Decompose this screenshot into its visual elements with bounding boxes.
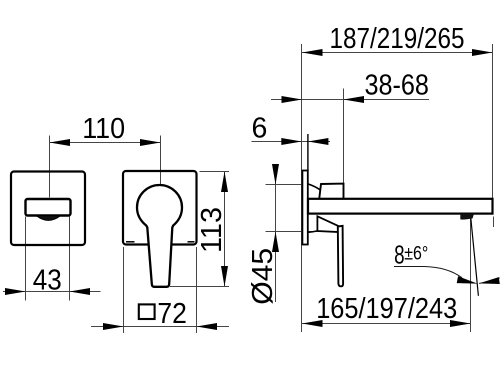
svg-text:187/219/265: 187/219/265 (330, 23, 465, 55)
svg-text:8: 8 (394, 241, 405, 269)
svg-text:38-68: 38-68 (364, 69, 429, 101)
svg-text:113: 113 (196, 207, 228, 253)
svg-text:72: 72 (157, 298, 187, 330)
svg-text:±6°: ±6° (404, 243, 428, 265)
svg-text:43: 43 (33, 264, 62, 296)
svg-text:Ø45: Ø45 (247, 248, 279, 305)
svg-text:6: 6 (251, 113, 267, 145)
svg-text:110: 110 (82, 113, 125, 145)
svg-text:165/197/243: 165/197/243 (316, 293, 457, 325)
